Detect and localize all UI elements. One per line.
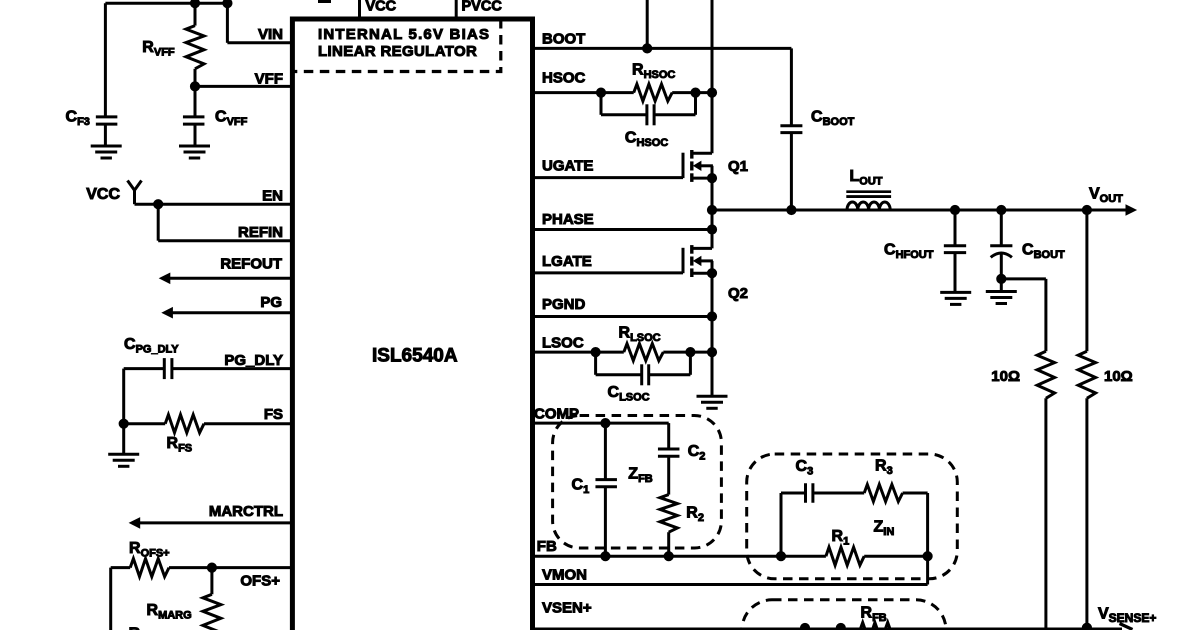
svg-text:C1: C1 — [572, 477, 590, 497]
svg-text:EN: EN — [262, 187, 283, 204]
svg-text:VIN: VIN — [258, 26, 283, 43]
svg-text:FS: FS — [264, 406, 283, 423]
svg-text:RHSOC: RHSOC — [632, 62, 675, 82]
svg-text:PHASE: PHASE — [542, 211, 594, 228]
svg-text:LGATE: LGATE — [542, 253, 592, 270]
svg-text:CVFF: CVFF — [215, 109, 248, 129]
svg-text:ROFS+: ROFS+ — [129, 540, 170, 560]
svg-text:CBOUT: CBOUT — [1022, 242, 1065, 262]
svg-text:RMARG: RMARG — [147, 602, 192, 622]
svg-text:REFOUT: REFOUT — [220, 255, 282, 272]
svg-text:VMON: VMON — [542, 567, 587, 584]
svg-text:UGATE: UGATE — [542, 158, 593, 175]
svg-text:C3: C3 — [796, 458, 814, 478]
svg-text:RVFF: RVFF — [142, 39, 175, 59]
svg-text:ROFS-: ROFS- — [129, 626, 167, 630]
svg-text:VSENSE+: VSENSE+ — [1098, 605, 1156, 625]
svg-text:R1: R1 — [832, 528, 850, 548]
svg-text:RFB: RFB — [861, 605, 887, 625]
svg-text:ISL6540A: ISL6540A — [372, 346, 458, 367]
svg-text:FB: FB — [537, 538, 557, 555]
svg-text:10Ω: 10Ω — [1104, 368, 1133, 385]
svg-text:REFIN: REFIN — [238, 224, 283, 241]
svg-text:10Ω: 10Ω — [991, 368, 1020, 385]
svg-text:PG: PG — [260, 294, 282, 311]
svg-text:LINEAR REGULATOR: LINEAR REGULATOR — [318, 43, 477, 60]
svg-text:HSOC: HSOC — [542, 70, 586, 87]
svg-text:PG_DLY: PG_DLY — [224, 352, 283, 369]
svg-text:COMP: COMP — [534, 406, 579, 423]
svg-text:VSEN+: VSEN+ — [542, 600, 592, 617]
svg-text:VCC: VCC — [366, 0, 397, 15]
svg-text:R2: R2 — [686, 504, 704, 524]
svg-text:Q2: Q2 — [728, 285, 748, 302]
svg-text:ZIN: ZIN — [874, 519, 895, 539]
svg-text:VFF: VFF — [255, 70, 283, 87]
svg-text:VCC: VCC — [86, 186, 120, 203]
svg-text:R3: R3 — [875, 458, 893, 478]
svg-text:CLSOC: CLSOC — [608, 384, 650, 404]
svg-text:PGND: PGND — [542, 296, 586, 313]
svg-text:INTERNAL 5.6V BIAS: INTERNAL 5.6V BIAS — [318, 26, 490, 43]
svg-text:CPG_DLY: CPG_DLY — [124, 336, 179, 356]
svg-text:PVCC: PVCC — [462, 0, 503, 15]
svg-text:LSOC: LSOC — [542, 334, 584, 351]
svg-text:RLSOC: RLSOC — [619, 325, 661, 345]
svg-text:OFS+: OFS+ — [240, 573, 280, 590]
svg-text:VOUT: VOUT — [1089, 186, 1123, 206]
svg-text:MARCTRL: MARCTRL — [209, 503, 283, 520]
svg-text:CBOOT: CBOOT — [811, 109, 855, 129]
svg-text:Q1: Q1 — [728, 158, 748, 175]
svg-text:C2: C2 — [688, 443, 706, 463]
svg-text:RFS: RFS — [167, 435, 193, 455]
svg-text:CHSOC: CHSOC — [625, 130, 668, 150]
svg-text:BOOT: BOOT — [542, 31, 585, 48]
svg-text:ZFB: ZFB — [628, 466, 653, 486]
svg-text:CHFOUT: CHFOUT — [884, 242, 934, 262]
svg-text:CF3: CF3 — [66, 109, 90, 129]
svg-text:LOUT: LOUT — [850, 168, 883, 188]
